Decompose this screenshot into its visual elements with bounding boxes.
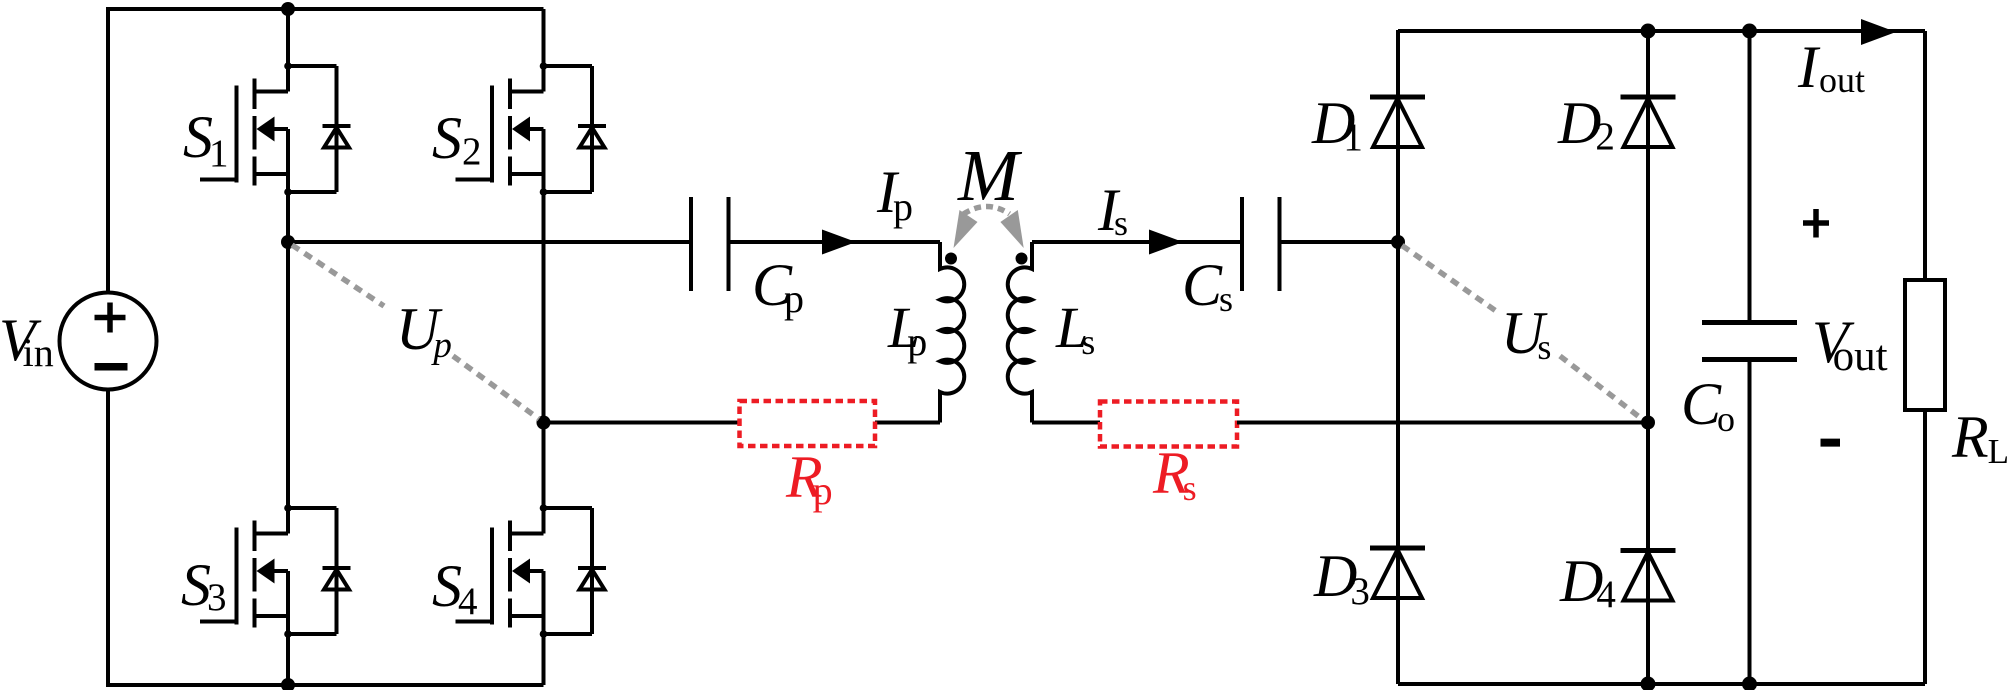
node B bridge midpoint right	[537, 416, 551, 430]
wire leg D1-D3	[1396, 30, 1400, 684]
wire secondary coil to Cs	[1032, 240, 1242, 244]
wire Rs to node D	[1237, 421, 1648, 425]
wire secondary bottom to Rs	[1032, 421, 1100, 425]
svg-text:M: M	[957, 135, 1023, 216]
capacitor Cs	[1242, 197, 1280, 291]
minus sign output	[1821, 439, 1841, 447]
wire Vin bottom to rail	[106, 390, 110, 686]
current arrow Is	[1149, 230, 1183, 255]
dashed measure line Us	[1402, 246, 1642, 420]
svg-text:Us: Us	[1501, 300, 1551, 367]
capacitor Cp	[691, 197, 729, 291]
wire top-left rail	[106, 7, 544, 11]
transistor S4	[456, 504, 607, 638]
wire leg D2-D4	[1646, 31, 1650, 684]
wire right edge top	[1923, 31, 1927, 280]
capacitor Co plates	[1702, 323, 1797, 360]
mutual arrowhead left	[954, 210, 978, 248]
node dot bottom rail leg D	[1641, 677, 1656, 690]
node dot top rail leg D	[1641, 24, 1656, 39]
wire Cs to node C	[1280, 240, 1399, 244]
plus sign output	[1803, 209, 1829, 238]
diode D1	[1370, 97, 1425, 147]
current arrow Ip	[822, 230, 856, 255]
dashed measure line Up	[292, 245, 539, 419]
wire leg S1-S3	[286, 9, 290, 685]
diode D2	[1621, 97, 1676, 147]
transistor S2	[456, 62, 607, 196]
capacitor Co branch	[1748, 31, 1752, 684]
resistor Rp dashed box	[740, 401, 876, 446]
wire bottom-right rail	[1398, 682, 1925, 686]
resistor Rs dashed box	[1100, 402, 1237, 447]
wire node B to Rp	[544, 421, 740, 425]
wire right edge bottom	[1923, 410, 1927, 684]
transistor S3	[200, 504, 351, 638]
node dot top rail	[281, 2, 295, 16]
node D rectifier input bottom	[1641, 416, 1655, 430]
resistor RL	[1905, 280, 1945, 410]
current arrow Iout	[1861, 19, 1896, 45]
node dot Co bottom	[1742, 677, 1757, 690]
mutual arrowhead right	[1000, 210, 1023, 248]
wire Cp to primary coil	[729, 240, 941, 244]
svg-text:D1: D1	[1311, 90, 1363, 159]
wire top-right rail	[1398, 29, 1925, 33]
node A bridge midpoint left	[281, 235, 295, 249]
polarity dot secondary	[1016, 253, 1028, 265]
node dot bottom-left rail	[281, 678, 295, 690]
wire primary coil to Rp	[875, 421, 940, 425]
wire bottom-left rail	[106, 683, 544, 687]
polarity dot primary	[945, 253, 957, 265]
wire Vin top to rail	[106, 9, 110, 293]
transistor S1	[200, 62, 351, 196]
wire node A to Cp	[288, 240, 691, 244]
node dot Co top	[1742, 24, 1757, 39]
wire leg S2-S4	[542, 9, 546, 685]
voltage source Vin	[60, 293, 157, 390]
mutual inductance arc M	[964, 207, 1010, 215]
inductor Lp primary coil	[940, 242, 964, 423]
inductor Ls secondary coil	[1008, 242, 1032, 423]
node C rectifier input top	[1391, 235, 1405, 249]
diode D4	[1621, 551, 1676, 601]
diode D3	[1370, 548, 1425, 598]
